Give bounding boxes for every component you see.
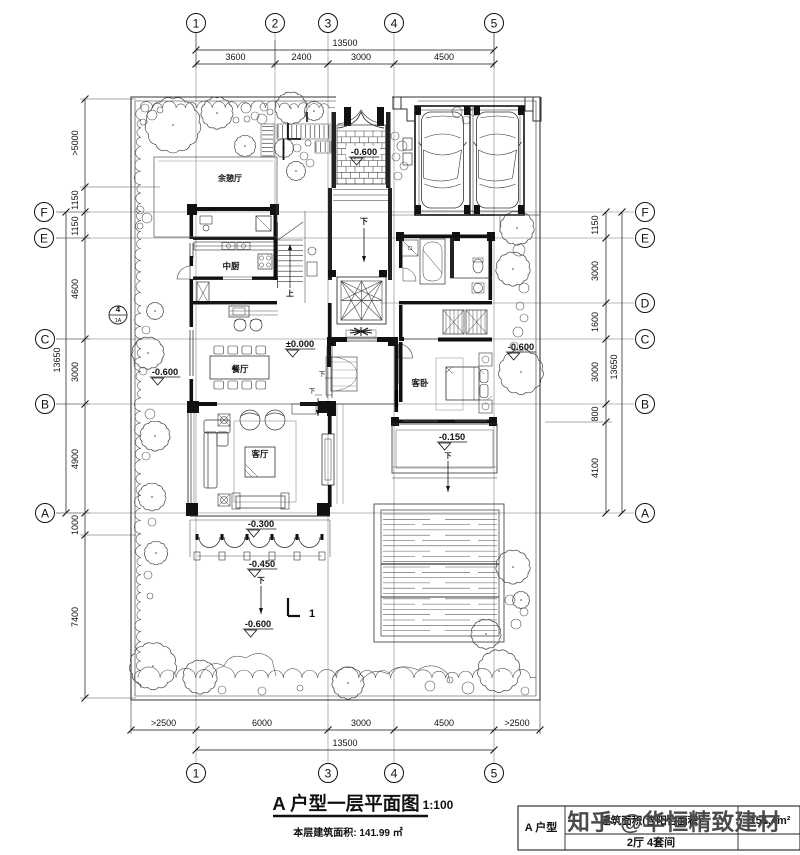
svg-text:中厨: 中厨 <box>222 261 240 271</box>
level -0.600 entry <box>346 146 380 157</box>
grid line D horizontal <box>380 302 634 304</box>
foyer east wall <box>395 342 399 412</box>
foyer south wall <box>327 401 336 416</box>
car left <box>422 112 464 208</box>
grid bubble 2 top <box>266 14 285 33</box>
stair up arrow <box>289 246 291 288</box>
svg-text:>5000: >5000 <box>70 130 80 155</box>
grid bubble E left <box>35 229 54 248</box>
shrub circle <box>397 141 407 151</box>
grid bubble C right <box>636 330 655 349</box>
wardrobe hatched right <box>466 310 487 334</box>
north room divider wall E <box>193 237 277 240</box>
suite wall D <box>399 301 492 304</box>
garage south edge line <box>390 214 540 216</box>
svg-text:下: 下 <box>309 387 316 395</box>
bedroom nightstand north <box>479 353 492 366</box>
svg-text:>2500: >2500 <box>504 718 529 728</box>
garage corner columns <box>415 106 421 115</box>
dining west window <box>189 330 191 376</box>
grid bubble F right <box>636 203 655 222</box>
tree <box>499 350 544 395</box>
living west window <box>187 413 189 505</box>
grid line C horizontal <box>56 338 634 340</box>
stair west wall <box>277 222 279 288</box>
right dimension 13650 <box>621 212 623 513</box>
grid line 1 vertical <box>195 33 197 763</box>
porch side edge left <box>189 520 191 557</box>
atrium star pattern <box>341 281 382 320</box>
car right <box>477 112 519 208</box>
shrub circle <box>136 206 144 214</box>
grid line A horizontal <box>56 512 634 514</box>
grid bubble 1 bottom <box>187 764 206 783</box>
tree <box>132 337 164 369</box>
grid bubble 5 bottom <box>485 764 504 783</box>
svg-text:客厅: 客厅 <box>250 449 269 459</box>
suite north columns <box>396 232 404 241</box>
svg-text:7400: 7400 <box>70 607 80 627</box>
dining-living wall <box>187 401 199 413</box>
pergola edge marks <box>288 123 301 139</box>
brick paving <box>337 131 386 184</box>
foyer east window <box>395 390 399 407</box>
fridge <box>256 216 271 231</box>
living rug <box>234 421 296 502</box>
grid bubble A left <box>36 504 55 523</box>
dining stools <box>234 319 246 331</box>
tree <box>332 667 364 699</box>
svg-text:3600: 3600 <box>225 52 245 62</box>
shrub circle <box>142 326 150 334</box>
svg-text:2400: 2400 <box>291 52 311 62</box>
pantry closet hatch <box>197 282 209 304</box>
shrub circle <box>241 103 251 113</box>
shrub line bottom garden <box>138 667 536 678</box>
shrub circle <box>306 159 314 167</box>
svg-text:3000: 3000 <box>590 261 600 281</box>
window sill atrium south <box>346 330 376 337</box>
planter boxes west of garage <box>403 138 412 150</box>
svg-text:客卧: 客卧 <box>410 378 429 388</box>
shrub circle <box>142 452 150 460</box>
grid bubble F left <box>35 203 54 222</box>
svg-text:3000: 3000 <box>590 362 600 382</box>
tree <box>146 303 163 320</box>
shrub circle <box>293 144 301 152</box>
svg-text:F: F <box>641 205 648 219</box>
shrub circle <box>520 314 528 322</box>
svg-text:E: E <box>40 231 48 245</box>
shrub circle <box>511 619 521 629</box>
leisure terrace outline <box>154 157 277 237</box>
svg-text:-0.600: -0.600 <box>351 147 377 157</box>
living coffee table <box>245 447 275 477</box>
bath sink <box>474 284 483 293</box>
tree <box>496 252 530 286</box>
svg-text:1:100: 1:100 <box>423 798 454 812</box>
shrub circle <box>218 686 226 694</box>
living east wall lower <box>328 485 332 507</box>
svg-text:4: 4 <box>391 16 398 30</box>
svg-text:13650: 13650 <box>609 354 619 379</box>
bath shower <box>402 240 418 256</box>
bath tub <box>420 239 445 284</box>
garage outline <box>415 106 524 215</box>
atrium skylight frame <box>337 277 386 324</box>
shrub circle <box>233 117 239 123</box>
tree <box>286 161 305 180</box>
shrub circle <box>251 112 259 120</box>
column foyer NE <box>388 337 397 346</box>
west wall window F-E <box>189 243 191 258</box>
shrub circle <box>470 108 478 116</box>
shrub circle <box>520 608 528 616</box>
porch arch posts <box>196 534 199 540</box>
suite entry door arc <box>399 344 413 358</box>
corridor down arrow <box>363 228 365 262</box>
bath inner wall <box>450 238 454 278</box>
porch south edge <box>190 515 330 517</box>
svg-text:下: 下 <box>257 576 265 585</box>
kitchen stove <box>258 254 272 269</box>
site boundary inner <box>135 101 536 696</box>
bedroom west wall <box>399 342 403 402</box>
shrub circle <box>297 685 303 691</box>
living sofa L <box>204 420 230 488</box>
section marker 1 <box>288 598 300 616</box>
entry gate canopy <box>338 112 384 128</box>
shrub circle <box>141 104 149 112</box>
shrub circle <box>305 140 311 146</box>
svg-text:1600: 1600 <box>590 312 600 332</box>
shrub circle <box>258 687 266 695</box>
tree <box>274 138 293 157</box>
dining chairs <box>214 346 266 389</box>
entry gate post left <box>344 107 351 126</box>
svg-text:5: 5 <box>491 766 498 780</box>
svg-text:-0.600: -0.600 <box>152 367 178 377</box>
entry steps <box>333 183 389 185</box>
boundary notch right of garage <box>525 97 541 121</box>
shrub circle <box>148 518 156 526</box>
grid bubble B right <box>636 395 655 414</box>
entry side wall left <box>332 112 337 188</box>
garage middle wall <box>469 106 471 215</box>
svg-text:1150: 1150 <box>70 190 80 209</box>
bath door <box>403 268 416 281</box>
dimension row bottom segments <box>131 729 540 731</box>
shrub circle <box>147 593 153 599</box>
planter symbol <box>350 327 372 336</box>
svg-text:3: 3 <box>325 766 332 780</box>
svg-text:4100: 4100 <box>590 458 600 478</box>
svg-text:4500: 4500 <box>434 52 454 62</box>
svg-text:13500: 13500 <box>332 738 357 748</box>
planting bed hatch rows <box>262 125 330 156</box>
shrub circle <box>400 162 408 170</box>
closet door wall <box>399 305 403 339</box>
pool inner frame <box>381 510 499 636</box>
living east wall <box>328 404 332 434</box>
grid bubble 5 top <box>485 14 504 33</box>
svg-text:C: C <box>641 332 650 346</box>
svg-text:-0.450: -0.450 <box>249 559 275 569</box>
svg-text:1A: 1A <box>115 318 122 324</box>
house north wall <box>189 207 277 211</box>
svg-text:±0.000: ±0.000 <box>286 339 314 349</box>
grid bubble 3 bottom <box>319 764 338 783</box>
porch posts line <box>197 555 322 557</box>
grid line B horizontal <box>56 403 634 405</box>
bedroom south wall <box>393 420 497 424</box>
svg-text:1: 1 <box>193 16 200 30</box>
svg-text:5: 5 <box>491 16 498 30</box>
tree <box>145 98 201 153</box>
kitchen south wall <box>193 277 223 280</box>
boundary notch left of garage <box>393 97 414 121</box>
shrub circle <box>147 110 157 120</box>
shrub circle <box>244 116 250 122</box>
svg-text:-0.600: -0.600 <box>508 342 534 352</box>
shrub circle <box>392 153 400 161</box>
kitchen east wall <box>274 211 278 280</box>
tree <box>140 421 170 451</box>
shrub circle <box>425 681 435 691</box>
grid line 4 vertical <box>393 33 395 763</box>
svg-text:本层建筑面积: 141.99 ㎡: 本层建筑面积: 141.99 ㎡ <box>293 826 402 839</box>
grid bubble A right <box>636 504 655 523</box>
svg-text:B: B <box>41 397 49 411</box>
bedroom nightstand south <box>479 400 492 413</box>
tree <box>512 592 529 609</box>
grid bubble 4 bottom <box>385 764 404 783</box>
shrub circle <box>462 116 470 124</box>
shrub circle <box>513 327 523 337</box>
grid bubble 4 top <box>385 14 404 33</box>
grid bubble 1 top <box>187 14 206 33</box>
porch side edge right <box>329 520 331 557</box>
svg-text:4900: 4900 <box>70 449 80 469</box>
tree <box>144 541 167 564</box>
dimension 13500 top <box>196 49 494 51</box>
bedroom rug <box>436 358 463 410</box>
svg-text:4500: 4500 <box>434 718 454 728</box>
svg-text:2: 2 <box>272 16 279 30</box>
porch arches <box>199 537 320 548</box>
grid line 3 vertical <box>327 33 329 763</box>
shrub line left boundary <box>134 108 141 688</box>
grid bubble C left <box>36 330 55 349</box>
tree <box>234 135 255 156</box>
svg-text:-0.300: -0.300 <box>248 519 274 529</box>
svg-text:上: 上 <box>286 288 294 298</box>
garden edge line below suite <box>336 404 338 504</box>
shrub circle <box>142 213 152 223</box>
column foyer NW <box>327 337 336 346</box>
shrub circle <box>137 223 143 229</box>
column north-east kitchen <box>270 204 279 215</box>
svg-text:2厅 4套间: 2厅 4套间 <box>627 835 675 849</box>
bedroom terrace outline <box>392 424 497 473</box>
spec table divider horizontal <box>565 833 800 835</box>
shrub circle <box>157 107 163 113</box>
shrub circle <box>519 283 529 293</box>
foyer north wall <box>327 337 347 342</box>
shrub circle <box>452 107 462 117</box>
terrace steps south <box>392 466 497 468</box>
shrub circle <box>394 172 402 180</box>
svg-text:C: C <box>41 332 50 346</box>
grid bubble 3 top <box>319 14 338 33</box>
living bench south <box>236 496 285 508</box>
dining west wall lower <box>190 379 194 406</box>
shrub circle <box>391 132 399 140</box>
shrub circle <box>521 687 529 695</box>
foyer west line <box>304 211 306 303</box>
tree <box>471 619 501 649</box>
west wall kitchen <box>190 256 194 266</box>
tree <box>304 101 323 120</box>
dining east window <box>326 346 328 398</box>
svg-text:1150: 1150 <box>590 215 600 234</box>
foyer niche <box>331 357 357 391</box>
grid line 2 vertical <box>274 33 276 212</box>
svg-text:4600: 4600 <box>70 279 80 299</box>
bedroom pillows <box>480 370 488 383</box>
tree <box>183 660 217 694</box>
wardrobe hatched left <box>443 310 464 334</box>
atrium side columns <box>328 270 336 277</box>
suite west wall <box>399 238 403 268</box>
kitchen entry door <box>177 266 190 279</box>
closet west wall <box>399 305 403 339</box>
svg-text:1: 1 <box>309 608 315 620</box>
svg-text:下: 下 <box>445 452 452 460</box>
svg-text:13500: 13500 <box>332 38 357 48</box>
left dimension chain <box>84 99 86 698</box>
tree <box>496 550 530 584</box>
shrub line top garden <box>140 101 335 108</box>
grid line E horizontal <box>56 237 634 239</box>
pool outer frame <box>374 504 504 642</box>
shrub circle <box>267 109 273 115</box>
kitchen-dining wall <box>193 301 277 304</box>
grid line F horizontal <box>56 211 634 213</box>
living south-east column <box>317 503 330 516</box>
living east cabinet <box>322 434 334 485</box>
svg-text:下: 下 <box>319 370 326 378</box>
shrub circle <box>510 342 518 350</box>
svg-text:1150: 1150 <box>70 216 80 235</box>
svg-text:4: 4 <box>116 305 121 314</box>
grid bubble D right <box>636 294 655 313</box>
living TV cabinet north <box>292 404 316 414</box>
svg-text:3000: 3000 <box>351 52 371 62</box>
grid bubble E right <box>636 229 655 248</box>
svg-text:3000: 3000 <box>70 362 80 382</box>
svg-text:下: 下 <box>360 217 368 226</box>
porch down arrow <box>260 586 262 614</box>
spec table divider vertical 1 <box>564 806 566 850</box>
suite east wall <box>489 238 493 300</box>
living south-west column <box>186 503 198 516</box>
site boundary outer <box>131 97 540 700</box>
svg-text:3000: 3000 <box>351 718 371 728</box>
tree <box>201 97 233 129</box>
foyer fixtures <box>308 247 316 255</box>
svg-text:13650: 13650 <box>52 347 62 372</box>
svg-text:1: 1 <box>193 766 200 780</box>
shrub circle <box>447 677 453 683</box>
dining sideboard <box>229 306 249 317</box>
shrub circle <box>516 302 524 310</box>
svg-text:1000: 1000 <box>70 515 80 535</box>
svg-text:3: 3 <box>325 16 332 30</box>
kitchen sinks <box>222 243 235 250</box>
svg-text:>2500: >2500 <box>151 718 176 728</box>
kitchen counter <box>194 242 274 250</box>
svg-text:餐厅: 餐厅 <box>230 364 249 374</box>
corridor west wall <box>328 188 332 280</box>
tree <box>129 643 176 690</box>
svg-text:E: E <box>641 231 649 245</box>
shrub circle <box>257 114 267 124</box>
north room fixtures <box>200 216 212 224</box>
svg-text:4: 4 <box>391 766 398 780</box>
living side table X south <box>218 494 230 506</box>
dimension 13500 bottom <box>196 749 494 751</box>
grid bubble B left <box>36 395 55 414</box>
suite wall C <box>399 337 404 341</box>
svg-text:余憩厅: 余憩厅 <box>217 173 242 183</box>
detail marker 4 <box>109 306 127 324</box>
tree <box>500 211 534 245</box>
left dimension 13650 <box>65 212 67 513</box>
title underline <box>273 815 428 817</box>
shrub circle <box>139 367 147 375</box>
staircase <box>278 222 303 282</box>
svg-text:知乎 @华恒精致建材: 知乎 @华恒精致建材 <box>567 809 780 835</box>
right dimension chain <box>605 212 607 513</box>
dimension row top segments <box>196 63 494 65</box>
spec table frame <box>518 806 800 850</box>
entry side wall right <box>386 112 391 188</box>
garden path line right <box>499 215 501 232</box>
grid line 5 vertical <box>493 33 495 763</box>
shrub circle <box>140 119 146 125</box>
svg-text:F: F <box>40 205 47 219</box>
terrace down arrow <box>447 461 449 492</box>
corridor east wall <box>388 188 392 280</box>
suite north wall <box>399 235 492 239</box>
svg-text:D: D <box>641 296 650 310</box>
bath toilet <box>473 259 483 273</box>
svg-text:-0.600: -0.600 <box>245 619 271 629</box>
tree <box>275 92 307 124</box>
shrub circle <box>144 571 152 579</box>
svg-text:6000: 6000 <box>252 718 272 728</box>
shrub circle <box>260 103 268 111</box>
svg-text:800: 800 <box>590 406 600 421</box>
bedroom west window <box>398 357 400 384</box>
living side table X north <box>218 414 230 426</box>
pool deck boards <box>383 514 497 631</box>
dining east wall <box>328 303 332 337</box>
svg-text:A: A <box>641 506 649 520</box>
west wall below door <box>190 279 194 305</box>
shrub circle <box>462 682 474 694</box>
